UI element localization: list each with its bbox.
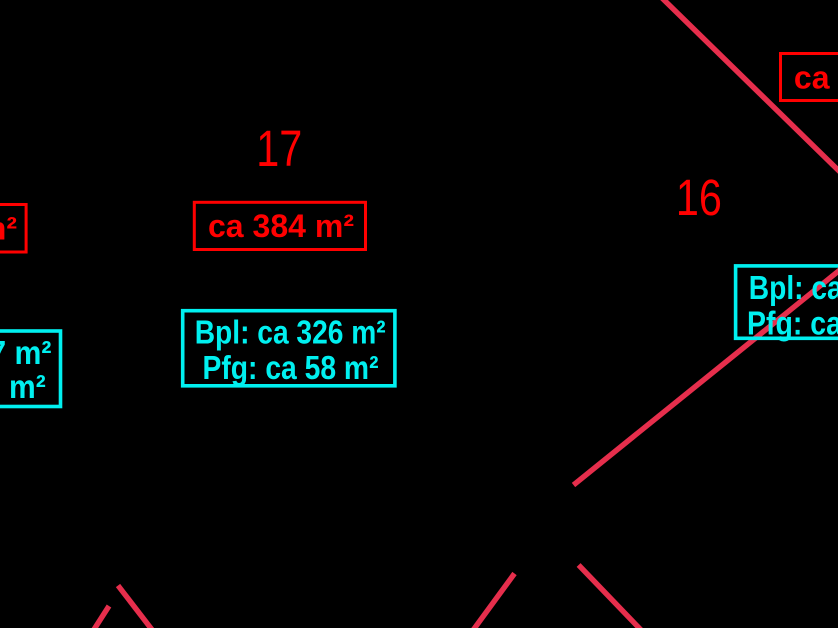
wire: bottom-left boundary right leg: [118, 586, 153, 628]
wire: long diagonal boundary line: [574, 269, 838, 485]
svg-text:17: 17: [256, 120, 302, 177]
svg-text:Bpl: ca 317 m²: Bpl: ca 317 m²: [0, 334, 52, 371]
node: area box ca 384 m2: [194, 202, 365, 249]
svg-text:Pfg: ca 561 m²: Pfg: ca 561 m²: [0, 368, 46, 405]
wire: lower-right leg from center junction: [579, 565, 642, 628]
svg-text:ca 384 m²: ca 384 m²: [794, 59, 838, 95]
svg-text:Bpl: ca 324 m²: Bpl: ca 324 m²: [749, 269, 838, 306]
svg-text:ca 384 m²: ca 384 m²: [208, 208, 354, 244]
svg-text:Pfg: ca 308 m²: Pfg: ca 308 m²: [747, 304, 838, 341]
node: info box Bpl/Pfg right edge (clipped): [736, 266, 838, 338]
svg-text:ca 234 m²: ca 234 m²: [0, 210, 17, 246]
node: area box left edge (clipped): [0, 205, 26, 253]
svg-text:Pfg: ca 58 m²: Pfg: ca 58 m²: [203, 349, 379, 386]
svg-text:Bpl: ca 326 m²: Bpl: ca 326 m²: [195, 314, 386, 351]
node: info box Bpl/Pfg left edge (clipped): [0, 331, 61, 407]
wire: boundary line top-right: [661, 0, 838, 173]
wire: lower-left leg from center junction: [471, 574, 515, 628]
wire: bottom-left boundary left leg: [93, 606, 109, 628]
svg-text:16: 16: [676, 169, 722, 226]
node: info box Bpl/Pfg center: [183, 311, 395, 386]
node: area box top-right (clipped): [781, 54, 838, 101]
